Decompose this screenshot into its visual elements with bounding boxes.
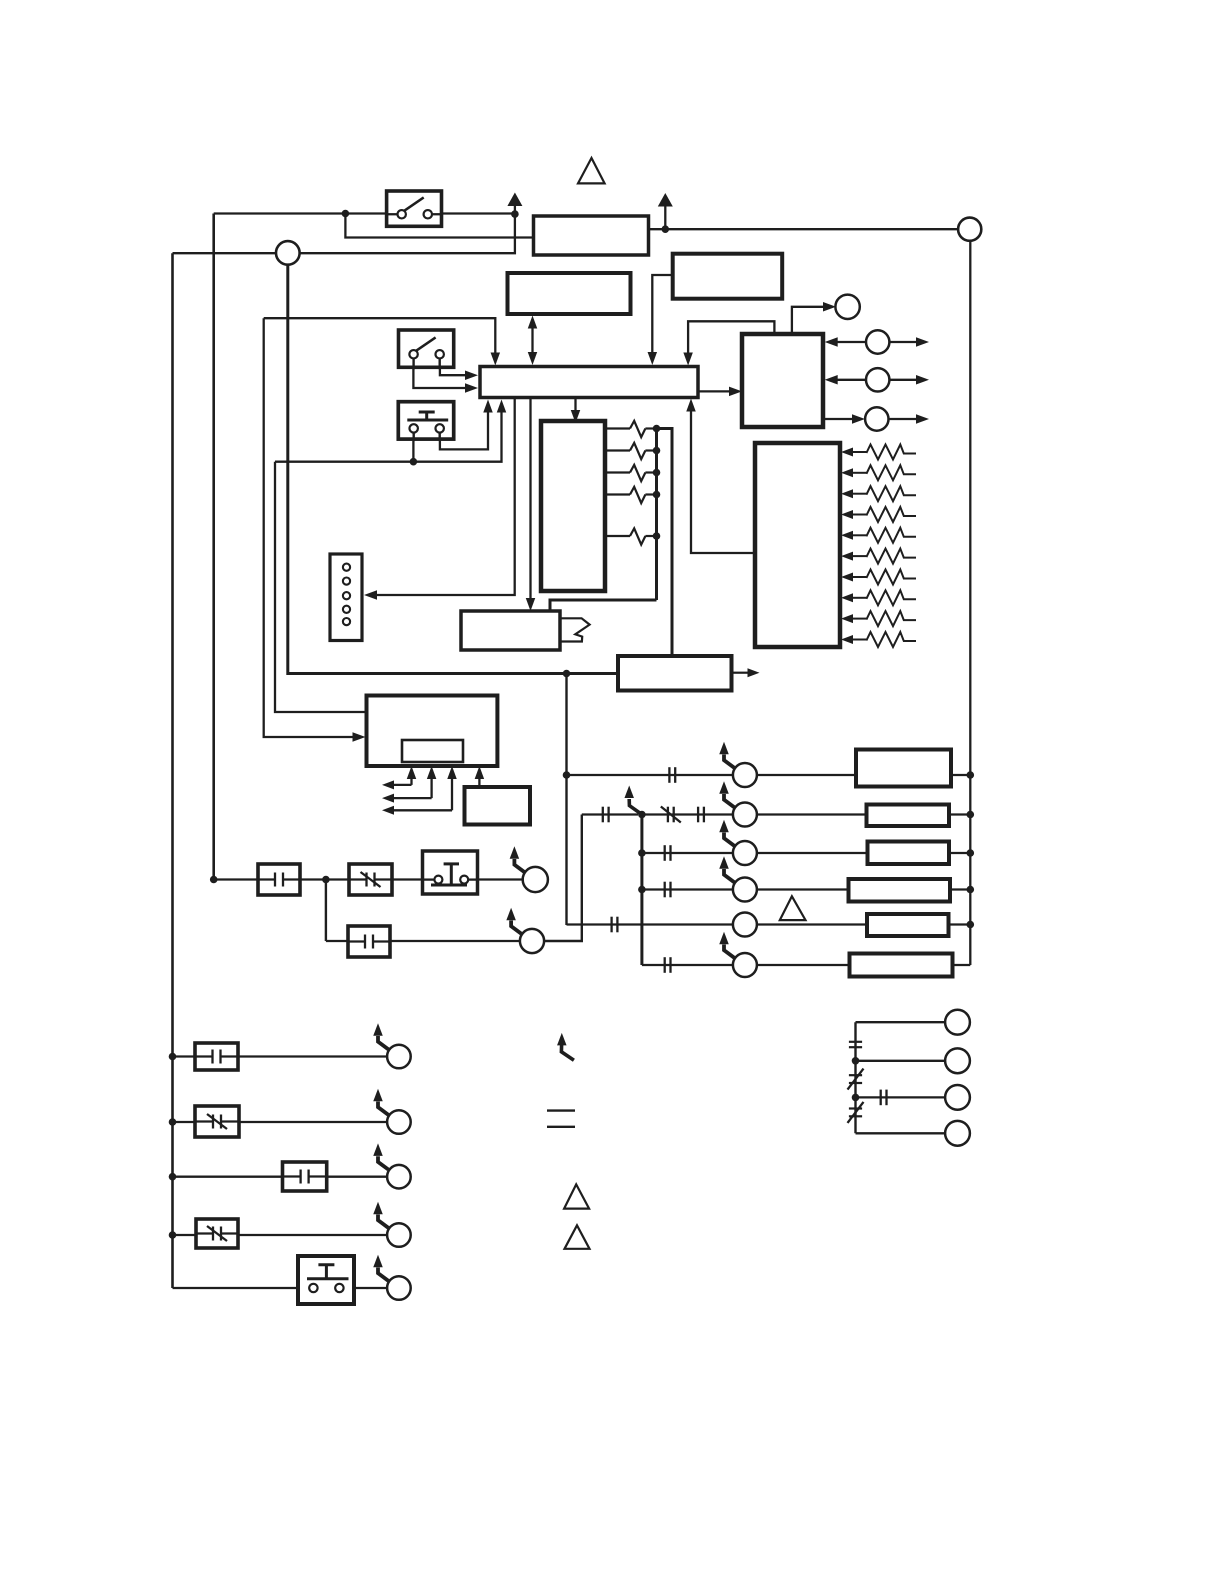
junction cluster 1 (852, 1057, 860, 1065)
junction row A (169, 1053, 177, 1061)
terminal ring T3 (945, 1085, 970, 1110)
solenoid terminal L3 (719, 820, 757, 865)
wire segment (392, 878, 423, 880)
junction row B (169, 1118, 177, 1126)
NO contact K7 (698, 807, 704, 823)
switch S2 (lid switch) (399, 330, 454, 369)
wire: node A branch down to block B1 input (345, 214, 533, 238)
wire: feed riser from relay junction to row1/row5 (565, 674, 567, 926)
wire: cluster row 3 (856, 1096, 946, 1098)
wire: cluster stem (854, 1022, 856, 1133)
lamp terminal LE (373, 1255, 410, 1300)
power arrow P2 (658, 193, 673, 229)
connector ring CN1 (276, 241, 300, 265)
block B5 (sensor input block) (541, 421, 605, 591)
wire: B9 output 3 (382, 766, 457, 815)
wire: B10 to B9 (arrow up) (475, 766, 485, 787)
block B3 (display unit) (508, 273, 631, 314)
resistor R10 (heater bank) (841, 528, 916, 543)
resistor R6 (heater bank) (841, 445, 916, 460)
resistor R13 (heater bank) (841, 590, 916, 605)
wire: junction F riser to row 2 (325, 880, 327, 942)
junction on sense bus R3 (653, 469, 661, 477)
junction on relay feed (563, 670, 571, 678)
junction node B (power) (511, 210, 519, 218)
wire row4 to block (757, 888, 849, 890)
wire row2 block to bus (949, 813, 970, 815)
wire: sense bus top to relay block riser (657, 429, 673, 657)
NC contact K13 (boxed, slashed) (195, 1106, 239, 1137)
wire: sensor block to bar (arrow up) (686, 399, 755, 554)
terminal ring CN2 (958, 218, 981, 241)
resistor R3 (thermistor input) (605, 465, 657, 481)
NC contact K2 (boxed, slashed) (349, 864, 392, 895)
junction cluster 2 (852, 1094, 860, 1102)
block B4 (motor driver) (742, 334, 823, 427)
note triangle 1 (callout) (780, 896, 806, 920)
wire: output row 2 right (642, 813, 733, 815)
wire row6 block to bus (953, 964, 971, 966)
solenoid terminal L6 (719, 932, 757, 977)
wire: left riser no.1 (to output ladder) (171, 253, 174, 1288)
NO contact K1 (boxed) (258, 864, 300, 895)
wire: top feed from left riser to switch S1 and power node (214, 212, 515, 214)
wire: output row 3 (642, 852, 733, 854)
wire row3 to block (757, 852, 868, 854)
junction F (322, 876, 330, 884)
wire: ladder row C (173, 1176, 388, 1178)
wire: right bus from CN2 down to output row bus (969, 241, 971, 965)
wire: ladder row B (173, 1121, 388, 1123)
solenoid terminal L1 (719, 742, 757, 787)
junction (left riser end) (210, 876, 218, 884)
resistor R12 (heater bank) (841, 570, 916, 585)
wire: M2 output up to output row 2 (544, 815, 582, 942)
resistor R8 (heater bank) (841, 486, 916, 501)
NO contact K10 (612, 917, 618, 933)
terminal ring CN5 with bidirectional arrows (825, 330, 929, 353)
wire row1 block to bus (951, 774, 970, 776)
wire: B1 output to terminal ring CN2 (649, 228, 959, 230)
junction row C (169, 1173, 177, 1181)
wire: PB1 right pin up to main bar (arrow up) (440, 400, 493, 450)
wire: bar to connector CN3 (arrow left) (364, 398, 515, 600)
junction E (410, 458, 418, 466)
note triangle 2 (564, 1184, 589, 1208)
main bus bar (480, 367, 698, 398)
junction row4 (638, 886, 646, 894)
junction row2 (with power flag) (624, 786, 645, 819)
wire: sense bus vertical (655, 429, 658, 601)
power arrow P1 (507, 193, 522, 215)
wire segment (300, 878, 349, 880)
wire: ladder row D (173, 1234, 388, 1236)
solenoid terminal L4 (719, 856, 757, 901)
wire: ring main from connector ring CN1 to power node B (173, 214, 515, 253)
block OUT1 (solenoid) (856, 750, 951, 787)
wire row2 to block (757, 813, 867, 815)
block OUT5 (867, 914, 949, 936)
block B9 (mechanism controller) (367, 696, 498, 767)
switch S1 (door switch) (387, 191, 442, 226)
terminal ring CN4 (835, 295, 859, 319)
terminal ring T1 (945, 1010, 970, 1035)
resistor R15 (heater bank) (841, 632, 916, 647)
resistor R11 (heater bank) (841, 549, 916, 564)
lamp terminal LD (373, 1202, 410, 1247)
block OUT3 (868, 842, 950, 865)
wire: junction E rail up to main bar (arrow up) (275, 400, 506, 462)
block OUT4 (849, 879, 951, 902)
wire row4 block to bus (950, 888, 970, 890)
wire: output row 2 left (582, 813, 638, 815)
wire: PB1 left pin to junction E (412, 441, 414, 462)
junction bus row5 (967, 921, 975, 929)
note triangle 3 (565, 1225, 590, 1249)
NO contact K12 (boxed) (195, 1043, 238, 1070)
resistor R5 (thermistor input) (605, 528, 657, 544)
terminal ring T2 (945, 1048, 970, 1073)
wire row5 block to bus (949, 923, 971, 925)
block B7 (interface, off-page) with torn edge (461, 611, 590, 650)
junction row D (169, 1231, 177, 1239)
block B1 (power supply unit) (534, 216, 649, 255)
wire: ladder row A (173, 1055, 388, 1057)
solenoid terminal L5 (733, 913, 757, 937)
wire row3 block to bus (949, 852, 970, 854)
wire row1 to block (757, 774, 856, 776)
wire: output row 6 (642, 964, 733, 966)
wire: interlock row feed (214, 878, 258, 880)
lamp terminal LB (373, 1089, 410, 1134)
junction bus row3 (967, 849, 975, 857)
coil terminal M1 (510, 846, 548, 892)
resistor R4 (thermistor input) (605, 487, 657, 503)
NO contact K18 (881, 1090, 887, 1106)
wire: B2 to main bar (arrow down) (648, 275, 673, 365)
legend: power flag arrow (557, 1033, 574, 1060)
wire: cluster row 2 (856, 1060, 946, 1062)
wire: junction E rail left branch down to big box pin (275, 462, 367, 712)
push-button PB1 (test switch) (398, 402, 453, 441)
coil terminal M2 (506, 908, 544, 953)
NC contact K15 (boxed, slashed) (196, 1219, 238, 1248)
block B8 (relay unit) with output arrow (618, 656, 760, 691)
wire: S2 left pin to main bar (arrow right) (413, 367, 478, 392)
wire: bar output to big block (arrow right) (698, 387, 742, 397)
lamp terminal LA (373, 1023, 410, 1068)
junction on sense bus R1 (653, 425, 661, 433)
resistor R7 (heater bank) (841, 465, 916, 480)
NO contact K9 (665, 882, 671, 898)
terminal ring CN6 with bidirectional arrows (825, 368, 929, 391)
NO contact K14 (boxed) (283, 1162, 327, 1191)
junction bus row4 (967, 886, 975, 894)
junction bus row1 (967, 771, 975, 779)
wire: cluster row 1 (856, 1021, 946, 1023)
solenoid terminal L2 (719, 781, 757, 826)
note triangle 4 (top) (578, 158, 605, 183)
legend: double line (frame ground) (547, 1111, 575, 1127)
junction on sense bus R4 (653, 491, 661, 499)
resistor R1 (thermistor input) (605, 421, 657, 437)
wire: left riser no.2 (to lower interlock row) (212, 214, 215, 880)
wire: bar to interface block (arrow down) (526, 398, 536, 612)
push-button PB3 (ladder row E) (298, 1256, 354, 1304)
junction node C (662, 225, 670, 233)
junction on sense bus R2 (653, 447, 661, 455)
junction row1 feed (563, 771, 571, 779)
wire segment to coil M2 (390, 940, 520, 942)
lamp terminal LC (373, 1143, 410, 1188)
junction on sense bus R5 (653, 532, 661, 540)
wire: output row 4 (642, 888, 733, 890)
wire: B9 output 2 (382, 766, 436, 803)
NO contact K16 (vertical) (849, 1042, 862, 1047)
NC contact K19 (vertical, slashed) (848, 1102, 864, 1123)
wire: bar to DAC block (arrow down) (571, 398, 581, 424)
wire: B4 loop to bar (arrow down) (683, 321, 774, 365)
wire: node D riser down to big box arrow input (264, 318, 366, 742)
terminal ring CN7 with output arrows (823, 407, 929, 430)
block B2 (controller) (673, 254, 783, 299)
block OUT2 (867, 805, 950, 827)
block B6 (heater control block) (755, 443, 840, 647)
wire: B4 to terminal ring CN4 (arrow right) (792, 302, 836, 334)
wire: contact bus riser (rows 2-6) (640, 815, 643, 966)
junction node A (342, 210, 350, 218)
wire: cluster row 4 (856, 1132, 946, 1134)
NO contact K8 (665, 845, 671, 861)
wire: riser from ring CN1 down to relay block row (288, 265, 618, 674)
NO contact K4 (669, 767, 675, 783)
push-button PB2 (interlock) (423, 851, 478, 894)
junction bus row2 (967, 811, 975, 819)
wire: S2 right pin to main bar (arrow right) (440, 367, 478, 380)
wire: ladder row E (173, 1287, 388, 1289)
resistor R9 (heater bank) (841, 507, 916, 522)
NC contact K17 (vertical, slashed) (848, 1069, 864, 1090)
block B10 (driver sub-board) (465, 787, 531, 825)
connector CN3 (5-pin) (330, 554, 362, 641)
resistor R14 (heater bank) (841, 611, 916, 626)
terminal ring T4 (945, 1121, 970, 1146)
wire segment (326, 940, 348, 942)
NO contact K5 (603, 807, 609, 823)
bidirectional arrow between B3 and main bar (528, 316, 538, 366)
wire: output row 5 (567, 923, 733, 925)
block OUT6 (850, 954, 953, 977)
NO contact K3 (boxed) (348, 926, 390, 957)
wire segment to coil M1 (478, 878, 523, 880)
wire: output row 1 (567, 774, 733, 776)
NC contact K6 (slashed) (661, 807, 681, 823)
wire: loop from node D to main bar (arrow down) (264, 318, 500, 365)
wire row5 to block (757, 923, 867, 925)
wire: B9 output 1 (arrow up into B9, arrow left out) (382, 766, 416, 789)
resistor R2 (thermistor input) (605, 443, 657, 459)
wire: sense bus to interface block (550, 600, 657, 611)
block B9 inner unit (402, 740, 463, 762)
wire row6 to block (757, 964, 850, 966)
NO contact K11 (665, 957, 671, 973)
junction row3 (638, 849, 646, 857)
